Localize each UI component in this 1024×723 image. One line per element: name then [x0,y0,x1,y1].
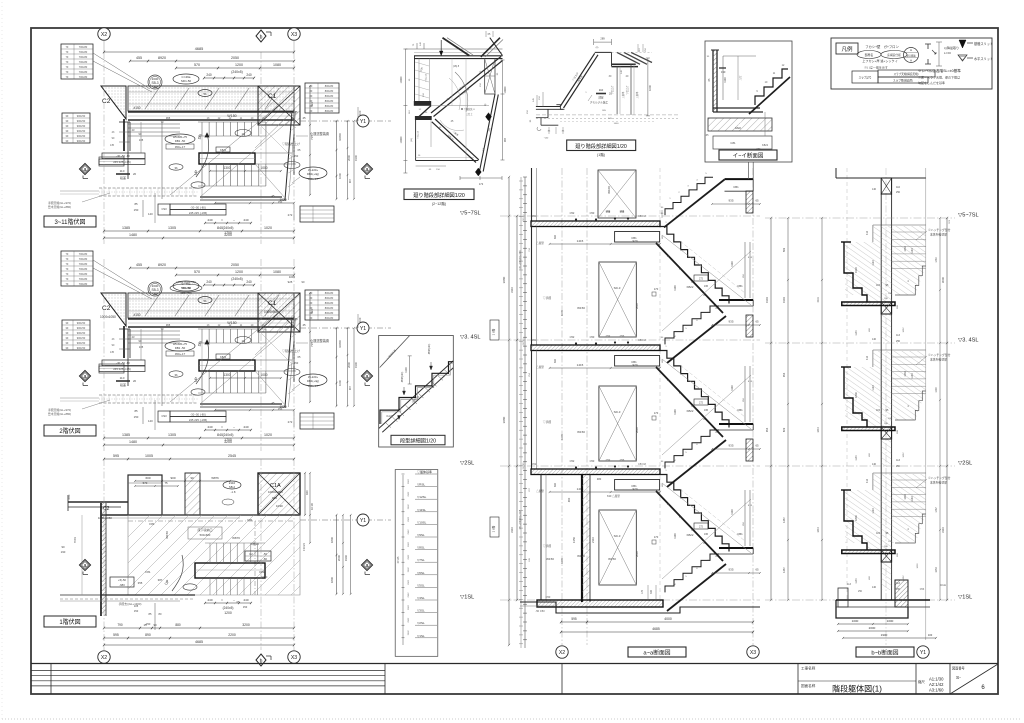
svg-text:DB1(+4g): DB1(+4g) [307,379,319,383]
svg-text:935: 935 [728,568,733,572]
svg-text:C52: C52 [570,335,575,339]
svg-text:-30 -50 (-80): -30 -50 (-80) [190,205,206,209]
svg-text:790: 790 [117,623,123,627]
svg-text:700x80: 700x80 [79,267,88,271]
svg-text:900x50: 900x50 [77,346,86,350]
svg-text:b~b断面図: b~b断面図 [871,649,898,657]
svg-text:3200: 3200 [224,233,232,237]
svg-text:W876: W876 [232,536,240,540]
svg-text:700x80: 700x80 [79,60,88,64]
svg-text:1070: 1070 [560,310,564,316]
svg-text:CS3: CS3 [161,414,167,418]
svg-text:W150: W150 [577,430,585,434]
svg-text:床構造仕様: 床構造仕様 [887,53,901,57]
svg-text:10: 10 [241,339,245,343]
svg-text:▽躯体基準: ▽躯体基準 [417,469,432,474]
svg-text:C52: C52 [532,339,537,342]
svg-text:a~a断面図: a~a断面図 [643,649,670,657]
svg-text:W150: W150 [608,557,616,561]
svg-text:W150: W150 [546,557,554,561]
svg-text:7F: 7F [65,252,68,256]
svg-text:1994: 1994 [782,297,786,303]
svg-text:1144: 1144 [855,330,858,336]
svg-text:△展望: △展望 [536,241,544,245]
svg-text:※( )は一般を示す: ※( )は一般を示す [864,65,888,70]
svg-text:▽11SL: ▽11SL [417,508,426,512]
svg-text:階段躯体図(1): 階段躯体図(1) [832,684,882,694]
svg-text:▽5~7SL: ▽5~7SL [958,213,979,219]
svg-text:480: 480 [597,477,602,481]
svg-text:1030: 1030 [276,504,283,508]
svg-text:925: 925 [288,280,293,284]
svg-text:(1階): (1階) [597,152,605,157]
svg-text:C52: C52 [570,211,575,215]
svg-text:1415: 1415 [577,239,584,243]
svg-text:-30 -50 -80: -30 -50 -80 [116,361,130,365]
svg-text:(240x5): (240x5) [231,70,243,74]
svg-text:595: 595 [113,633,119,637]
svg-text:C53 18: C53 18 [638,463,646,466]
svg-text:800x80: 800x80 [325,291,334,295]
svg-text:-1.8: -1.8 [231,490,236,494]
svg-text:7F: 7F [65,257,68,261]
svg-text:700x80: 700x80 [79,252,88,256]
svg-text:#150: #150 [133,106,140,110]
svg-text:150: 150 [134,415,139,419]
svg-text:410: 410 [866,355,869,360]
svg-text:355: 355 [138,581,143,585]
svg-text:#150: #150 [133,313,140,317]
svg-text:700x80: 700x80 [79,70,88,74]
svg-text:90: 90 [61,545,65,549]
svg-text:Y1: Y1 [920,650,926,656]
svg-text:(240x5): (240x5) [223,606,234,610]
svg-text:▽1SL: ▽1SL [417,634,425,638]
svg-text:45: 45 [302,323,306,327]
svg-text:140: 140 [148,212,153,216]
svg-text:▽6SL: ▽6SL [417,571,425,575]
svg-text:272: 272 [288,420,293,424]
svg-text:廻り階段部詳細図1/20: 廻り階段部詳細図1/20 [413,191,465,199]
svg-text:F81: F81 [149,522,155,526]
svg-text:C52: C52 [570,459,575,463]
svg-text:700x80: 700x80 [79,272,88,276]
svg-text:S-: S- [956,675,961,681]
svg-text:SD1-50: SD1-50 [181,79,192,83]
svg-text:1190: 1190 [673,285,677,291]
svg-text:#拘22: #拘22 [251,541,259,546]
svg-text:800x80: 800x80 [325,109,334,113]
svg-text:150: 150 [278,407,283,411]
svg-text:C53: C53 [620,211,625,214]
svg-text:240: 240 [243,598,248,602]
svg-text:135: 135 [110,144,115,147]
svg-text:2962: 2962 [408,516,410,522]
svg-text:X3: X3 [750,650,756,656]
svg-text:65: 65 [755,320,759,324]
svg-text:1916: 1916 [854,267,858,273]
svg-text:凡例: 凡例 [841,45,853,53]
svg-text:940: 940 [305,490,309,495]
svg-text:3F: 3F [65,346,68,350]
svg-text:(240x5): (240x5) [223,226,234,230]
svg-text:KB22: KB22 [687,409,694,413]
svg-text:2962: 2962 [408,617,410,623]
svg-text:800x80: 800x80 [325,316,334,320]
svg-text:▽2SL: ▽2SL [958,461,972,467]
svg-text:2000: 2000 [337,554,341,561]
svg-text:65: 65 [294,110,298,114]
svg-text:C52: C52 [532,215,537,218]
svg-text:C1: C1 [268,93,277,100]
svg-text:1144: 1144 [855,578,858,584]
svg-text:△展望: △展望 [536,489,544,493]
svg-text:1916: 1916 [817,297,820,303]
svg-text:250: 250 [858,590,863,593]
svg-text:455: 455 [136,263,142,267]
svg-text:65: 65 [755,568,759,572]
svg-text:C52: C52 [532,463,537,466]
svg-text:195: 195 [704,533,709,536]
svg-text:272: 272 [699,526,704,529]
svg-text:609: 609 [782,427,786,432]
svg-text:1400: 1400 [614,123,620,125]
svg-text:基礎スリット: 基礎スリット [974,41,993,46]
svg-text:2962: 2962 [408,529,410,535]
svg-text:1822: 1822 [735,126,741,130]
svg-text:800x80: 800x80 [325,89,334,93]
svg-text:2962: 2962 [408,554,410,560]
svg-text:365: 365 [166,323,171,327]
svg-text:(18)+760+7(8): (18)+760+7(8) [176,280,195,284]
svg-text:Y1: Y1 [360,326,366,332]
svg-text:900x50: 900x50 [77,119,86,123]
svg-text:595: 595 [113,454,119,458]
svg-text:800x80: 800x80 [325,84,334,88]
svg-text:1900: 1900 [881,633,888,637]
svg-text:970: 970 [632,487,637,491]
svg-text:1130: 1130 [730,385,734,391]
svg-text:800x80: 800x80 [325,99,334,103]
svg-text:7081: 7081 [73,536,77,543]
svg-text:3080: 3080 [502,276,506,283]
svg-text:150: 150 [294,361,299,365]
svg-text:250: 250 [896,191,901,194]
svg-text:100: 100 [358,317,362,322]
svg-text:KB22: KB22 [687,285,694,289]
svg-text:240: 240 [207,425,212,429]
svg-text:X2: X2 [101,32,107,38]
svg-text:段差: 段差 [120,175,126,180]
svg-text:900x50: 900x50 [77,139,86,143]
svg-text:135: 135 [110,351,115,354]
svg-text:900x50: 900x50 [77,129,86,133]
svg-text:8F: 8F [309,94,312,98]
svg-text:1030: 1030 [904,371,907,377]
svg-text:※ハッチング部分: ※ハッチング部分 [928,228,951,232]
svg-text:#x120: #x120 [386,416,393,418]
svg-text:SB-2: SB-2 [229,485,236,489]
svg-text:2000: 2000 [347,362,351,368]
svg-text:3110: 3110 [941,527,945,533]
svg-text:a: a [366,374,369,380]
svg-text:a: a [84,563,87,569]
svg-text:F81: F81 [247,518,253,522]
svg-text:-50: -50 [263,552,267,556]
svg-text:1000: 1000 [260,373,267,377]
svg-text:458+-1?: 458+-1? [308,177,319,181]
svg-text:150: 150 [134,609,139,613]
svg-text:1840: 1840 [854,515,858,521]
svg-text:595: 595 [571,617,577,621]
svg-text:3F: 3F [65,139,68,143]
svg-text:(240x5): (240x5) [223,433,234,437]
svg-text:4848(120): 4848(120) [429,344,431,355]
svg-text:▽1SL: ▽1SL [460,595,474,601]
svg-text:115: 115 [876,284,880,287]
svg-text:7F: 7F [65,277,68,281]
svg-text:7F: 7F [65,70,68,74]
svg-text:85: 85 [134,409,138,413]
svg-text:3b: 3b [174,166,178,170]
svg-text:C53: C53 [590,211,595,215]
svg-text:500x600: 500x600 [200,533,211,537]
svg-text:1052: 1052 [903,452,905,458]
svg-text:4685: 4685 [652,627,660,631]
svg-text:イ~イ断面図: イ~イ断面図 [733,152,764,160]
svg-text:245 225 (-195): 245 225 (-195) [189,418,207,422]
svg-text:3F: 3F [65,124,68,128]
svg-text:7F: 7F [65,282,68,286]
svg-text:3F: 3F [65,129,68,133]
svg-text:90: 90 [190,476,194,480]
svg-text:1000: 1000 [648,85,652,91]
svg-text:F1023: F1023 [302,543,306,551]
svg-text:C1A: C1A [270,483,281,489]
svg-text:1800: 1800 [330,576,334,583]
svg-text:3~11階伏図: 3~11階伏図 [54,218,85,226]
svg-text:▽1SL: ▽1SL [958,595,972,601]
svg-text:900x50: 900x50 [77,331,86,335]
svg-text:3F: 3F [65,119,68,123]
svg-text:▽2SL: ▽2SL [460,461,474,467]
svg-text:C53 18: C53 18 [638,339,646,342]
svg-text:700x80: 700x80 [79,257,88,261]
svg-text:1030: 1030 [904,246,907,252]
svg-text:フカシ+壁 ガ+フロン: フカシ+壁 ガ+フロン [865,44,899,49]
svg-text:3110: 3110 [510,287,514,293]
svg-text:1650: 1650 [935,567,938,573]
svg-text:245 225 (-195): 245 225 (-195) [189,211,207,215]
svg-text:8F: 8F [309,311,312,315]
svg-text:8F: 8F [309,99,312,103]
svg-text:150: 150 [278,200,283,204]
svg-text:800x80: 800x80 [325,306,334,310]
svg-text:190: 190 [61,550,66,554]
svg-text:W150: W150 [577,306,585,310]
svg-text:2962: 2962 [408,567,410,573]
svg-text:90: 90 [153,623,157,627]
svg-text:3b: 3b [174,373,178,377]
svg-text:8F: 8F [309,291,312,295]
svg-text:C1: C1 [268,300,277,307]
svg-text:150: 150 [721,70,726,74]
svg-text:240: 240 [243,425,248,429]
svg-text:170: 170 [654,535,659,539]
svg-text:7F: 7F [65,65,68,69]
svg-text:1000x1050: 1000x1050 [98,516,112,520]
svg-text:8F: 8F [309,104,312,108]
svg-text:3F: 3F [65,134,68,138]
svg-text:(2~12階): (2~12階) [432,201,446,206]
svg-text:1階伏図: 1階伏図 [59,618,80,626]
svg-text:113: 113 [847,583,851,586]
svg-text:1 6階: 1 6階 [492,525,496,532]
svg-text:~: ~ [233,425,235,429]
svg-text:1840: 1840 [817,527,820,533]
svg-text:240: 240 [207,218,212,222]
svg-text:210 60: 210 60 [523,214,525,221]
svg-text:75: 75 [164,481,168,485]
svg-text:110: 110 [120,169,125,173]
svg-text:900x50: 900x50 [77,321,86,325]
svg-text:7F: 7F [65,45,68,49]
svg-text:7F: 7F [65,262,68,266]
svg-text:170: 170 [641,589,644,594]
svg-text:C53: C53 [590,459,595,463]
svg-text:460: 460 [567,497,571,502]
svg-text:3F: 3F [65,321,68,325]
svg-text:1000: 1000 [338,173,342,179]
svg-text:1350: 1350 [572,536,576,543]
svg-text:図面名称: 図面名称 [801,683,816,688]
svg-text:3F: 3F [65,326,68,330]
svg-text:65: 65 [755,444,759,448]
svg-text:954: 954 [765,427,769,432]
svg-text:582: 582 [782,247,786,252]
svg-text:840: 840 [217,433,223,437]
svg-text:1000: 1000 [261,575,268,579]
svg-text:300: 300 [650,589,653,594]
svg-text:105: 105 [134,604,139,608]
svg-text:▽3SL: ▽3SL [417,609,425,613]
svg-text:1026: 1026 [917,563,919,569]
svg-text:1200: 1200 [235,270,243,274]
svg-text:K822: K822 [220,355,227,359]
svg-text:1900: 1900 [354,155,358,161]
svg-text:2545: 2545 [228,454,236,458]
svg-text:3110: 3110 [510,527,514,533]
svg-text:+5|-50: +5|-50 [118,578,126,582]
svg-text:289: 289 [600,37,605,41]
svg-text:a: a [366,563,369,569]
svg-text:1130: 1130 [730,509,734,515]
svg-text:800x80: 800x80 [325,104,334,108]
svg-text:570: 570 [194,270,200,274]
svg-text:8F: 8F [309,89,312,93]
svg-text:1120: 1120 [872,260,875,266]
svg-text:1 6階: 1 6階 [492,328,496,335]
svg-text:KB22: KB22 [687,533,694,537]
svg-text:K822: K822 [762,143,769,147]
svg-text:110: 110 [896,186,900,189]
svg-text:2050: 2050 [231,263,239,267]
svg-text:2200: 2200 [228,633,236,637]
svg-text:1200: 1200 [235,63,243,67]
svg-text:3F: 3F [65,341,68,345]
svg-text:800x80: 800x80 [325,94,334,98]
svg-text:935: 935 [728,199,733,203]
svg-text:365: 365 [166,116,171,120]
svg-text:8920: 8920 [158,56,166,60]
svg-text:8F: 8F [309,306,312,310]
svg-text:1900: 1900 [354,362,358,368]
svg-text:900x50: 900x50 [77,336,86,340]
svg-text:b: b [260,659,263,665]
svg-text:DB1(+4g): DB1(+4g) [307,172,319,176]
svg-text:1130: 1130 [911,248,914,254]
svg-text:935: 935 [728,320,733,324]
svg-text:笠木天端(GL+880): 笠木天端(GL+880) [48,205,71,209]
svg-text:150: 150 [243,605,248,609]
svg-text:10800: 10800 [338,340,342,348]
svg-text:C52: C52 [606,211,611,214]
svg-text:1190: 1190 [673,533,677,539]
svg-text:700x80: 700x80 [79,50,88,54]
svg-text:115: 115 [876,532,880,535]
svg-text:660: 660 [554,358,557,363]
svg-text:140: 140 [872,188,877,191]
svg-text:987: 987 [504,137,507,142]
svg-text:660: 660 [554,482,557,487]
svg-text:900x50: 900x50 [77,341,86,345]
svg-text:3200: 3200 [242,623,250,627]
svg-text:900x50: 900x50 [77,124,86,128]
svg-text:630 △展望: 630 △展望 [607,494,620,498]
svg-text:2962: 2962 [408,478,410,484]
svg-text:2050: 2050 [231,56,239,60]
svg-text:1300: 1300 [223,373,230,377]
svg-text:=: = [221,598,223,602]
svg-text:C2: C2 [102,98,111,105]
svg-text:1200: 1200 [224,611,232,615]
svg-text:X3: X3 [291,655,297,661]
svg-text:45: 45 [302,116,306,120]
svg-text:C53: C53 [620,335,625,338]
svg-text:※レベルは各階SL=±0基準: ※レベルは各階SL=±0基準 [918,68,961,73]
svg-text:1130: 1130 [911,373,914,379]
svg-text:600: 600 [145,476,150,480]
svg-text:部屋名: 部屋名 [865,52,874,57]
svg-text:▽手摺: ▽手摺 [543,420,552,424]
svg-text:800x80: 800x80 [325,301,334,305]
svg-text:135: 135 [139,138,144,142]
svg-text:=: = [221,218,223,222]
svg-text:2010: 2010 [635,303,639,309]
svg-text:△な: △な [738,75,742,80]
svg-text:245 225(-195): 245 225(-195) [113,367,131,371]
svg-text:1020: 1020 [264,433,272,437]
svg-text:970: 970 [632,363,637,367]
svg-text:水平スリット: 水平スリット [974,56,993,61]
svg-text:171+(20)(44)+224: 171+(20)(44)+224 [519,250,522,270]
svg-text:~: ~ [233,598,235,602]
svg-text:150: 150 [134,208,139,212]
svg-text:3000: 3000 [941,276,945,283]
svg-text:~: ~ [233,218,235,222]
svg-text:10800: 10800 [338,133,342,141]
svg-text:1385: 1385 [122,226,130,230]
